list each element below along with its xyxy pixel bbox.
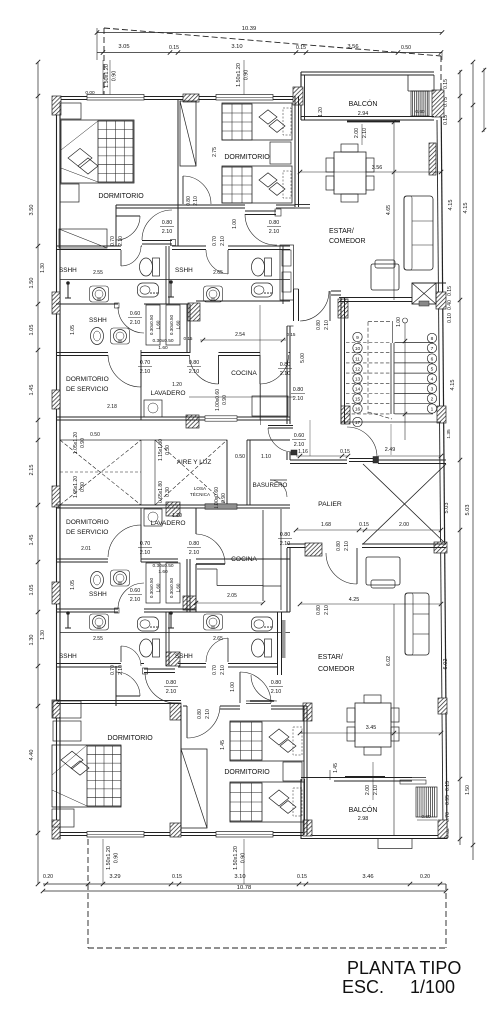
svg-text:1.10: 1.10 [261,454,271,460]
svg-text:1.45: 1.45 [220,740,226,750]
svg-text:1.20: 1.20 [318,107,324,117]
svg-text:DORMITORIO: DORMITORIO [66,376,109,383]
svg-text:0.65x1.80: 0.65x1.80 [158,481,164,503]
svg-text:0.30: 0.30 [165,487,171,497]
svg-text:0.90: 0.90 [114,853,120,864]
svg-text:2: 2 [431,396,434,402]
svg-text:1.35: 1.35 [446,429,452,439]
svg-text:5.03: 5.03 [465,505,471,516]
svg-text:4.40: 4.40 [29,750,35,761]
svg-text:ESTAR/: ESTAR/ [318,654,343,661]
svg-text:0.30x0.50: 0.30x0.50 [152,563,173,569]
svg-text:SSHH: SSHH [89,317,107,324]
svg-text:DORMITORIO: DORMITORIO [98,193,144,200]
svg-text:2.10: 2.10 [373,785,379,795]
svg-text:1.05: 1.05 [70,325,76,335]
svg-text:TÉCNICA: TÉCNICA [190,491,211,497]
svg-text:0.80: 0.80 [162,220,173,226]
svg-text:0.90: 0.90 [112,71,118,82]
svg-text:SSHH: SSHH [59,267,77,274]
svg-text:0.80: 0.80 [271,680,282,686]
svg-text:1.50x1.20: 1.50x1.20 [233,846,239,870]
svg-text:1.45: 1.45 [29,535,35,546]
svg-text:7: 7 [431,346,434,352]
svg-text:0.15: 0.15 [443,79,449,89]
svg-text:1.16: 1.16 [298,449,308,455]
svg-text:13: 13 [355,376,361,382]
svg-text:2.10: 2.10 [324,320,330,330]
svg-text:0.15: 0.15 [184,336,193,341]
svg-text:2.05: 2.05 [227,593,237,599]
svg-text:0.90: 0.90 [241,853,247,864]
svg-text:0.90: 0.90 [244,70,250,81]
svg-text:DORMITORIO: DORMITORIO [224,154,270,161]
svg-text:3.29: 3.29 [109,874,120,880]
svg-text:0.60: 0.60 [130,311,141,317]
svg-text:1.20: 1.20 [172,513,182,519]
svg-text:4.15: 4.15 [450,380,456,391]
svg-text:1.30: 1.30 [29,635,35,646]
svg-text:0.80: 0.80 [336,541,342,551]
svg-text:3.56: 3.56 [372,165,383,171]
svg-text:SSHH: SSHH [175,653,193,660]
svg-text:1.45: 1.45 [333,763,339,773]
svg-text:0.15: 0.15 [445,781,451,791]
svg-text:2.55: 2.55 [93,636,103,642]
svg-text:0.60: 0.60 [421,814,431,820]
svg-text:3.56: 3.56 [347,44,358,50]
svg-text:2.00: 2.00 [354,128,360,138]
svg-text:1/100: 1/100 [410,977,455,997]
svg-text:0.30: 0.30 [165,445,171,455]
svg-text:0.70: 0.70 [110,665,116,675]
svg-text:6: 6 [431,356,434,362]
svg-text:2.01: 2.01 [81,546,91,552]
svg-text:5.00: 5.00 [300,353,306,363]
svg-text:1.00x0.60: 1.00x0.60 [214,487,220,509]
svg-text:0.90: 0.90 [80,482,86,492]
svg-text:0.60: 0.60 [130,588,141,594]
svg-text:SSHH: SSHH [175,267,193,274]
svg-text:0.80: 0.80 [189,541,200,547]
svg-text:9: 9 [356,335,359,341]
svg-text:0.60: 0.60 [415,109,425,115]
svg-text:0.40: 0.40 [447,300,453,310]
svg-text:1.60: 1.60 [176,320,181,329]
svg-text:11: 11 [355,356,360,362]
svg-text:1.05x1.20: 1.05x1.20 [73,476,79,498]
svg-text:1.00x0.60: 1.00x0.60 [215,389,221,411]
svg-text:4.25: 4.25 [349,597,360,603]
svg-text:0.70: 0.70 [212,236,218,246]
svg-text:1.60: 1.60 [176,583,181,592]
svg-text:ESTAR/: ESTAR/ [329,228,354,235]
svg-text:1.00: 1.00 [230,682,236,692]
svg-text:1.60: 1.60 [156,583,161,592]
svg-text:0.30x0.50: 0.30x0.50 [152,338,173,344]
svg-text:1.60: 1.60 [158,569,168,575]
svg-text:0.80: 0.80 [166,680,177,686]
svg-text:0.15: 0.15 [296,45,306,51]
svg-text:0.50: 0.50 [235,454,245,460]
svg-text:ESC.: ESC. [342,977,384,997]
svg-text:PLANTA TIPO: PLANTA TIPO [347,958,461,978]
svg-text:0.90: 0.90 [221,493,227,503]
svg-text:2.10: 2.10 [269,229,280,235]
svg-text:1.60: 1.60 [156,320,161,329]
svg-text:0.10: 0.10 [447,313,453,323]
svg-text:COCINA: COCINA [231,370,257,377]
svg-text:4.65: 4.65 [386,205,392,215]
svg-text:1.05x1.20: 1.05x1.20 [73,432,79,454]
svg-text:2.10: 2.10 [293,396,304,402]
svg-text:1.00: 1.00 [232,219,238,229]
svg-text:BALCÓN: BALCÓN [349,805,378,814]
svg-text:2.55: 2.55 [93,270,103,276]
svg-text:4.15: 4.15 [463,203,469,214]
svg-text:2.10: 2.10 [130,320,141,326]
svg-text:17: 17 [355,420,361,426]
svg-text:0.80: 0.80 [269,220,280,226]
svg-text:2.10: 2.10 [280,541,291,547]
svg-text:2.00: 2.00 [365,785,371,795]
svg-text:1.50x1.20: 1.50x1.20 [104,64,110,88]
svg-text:1.05: 1.05 [29,325,35,336]
svg-text:2.49: 2.49 [385,447,396,453]
svg-text:2.10: 2.10 [166,689,177,695]
svg-text:2.10: 2.10 [189,550,200,556]
svg-text:14: 14 [355,386,361,392]
svg-text:COMEDOR: COMEDOR [329,238,366,245]
svg-text:2.10: 2.10 [220,236,226,246]
svg-text:10: 10 [355,346,361,352]
svg-text:1.50: 1.50 [29,278,35,289]
svg-text:3.50: 3.50 [29,205,35,216]
svg-text:3.05: 3.05 [118,44,129,50]
svg-text:16: 16 [355,406,361,412]
svg-text:1.15x1.80: 1.15x1.80 [158,439,164,461]
svg-text:10.78: 10.78 [237,885,252,891]
svg-text:1.68: 1.68 [321,522,331,528]
svg-text:10.39: 10.39 [242,26,257,32]
svg-text:2.10: 2.10 [118,665,124,675]
svg-text:2.54: 2.54 [235,332,245,338]
svg-text:0.90: 0.90 [80,438,86,448]
svg-text:0.20: 0.20 [420,874,430,880]
svg-text:6.02: 6.02 [386,656,392,666]
svg-text:0.15: 0.15 [287,332,296,337]
svg-text:0.80: 0.80 [280,532,291,538]
svg-text:0.80: 0.80 [316,605,322,615]
svg-text:DORMITORIO: DORMITORIO [107,735,153,742]
svg-text:1.30: 1.30 [40,630,46,640]
svg-text:2.10: 2.10 [162,229,173,235]
svg-text:1.30: 1.30 [40,263,46,273]
svg-text:2.10: 2.10 [118,236,124,246]
svg-text:2.10: 2.10 [220,665,226,675]
svg-text:3: 3 [431,386,434,392]
svg-text:2.10: 2.10 [362,128,368,138]
svg-text:0.90: 0.90 [222,395,228,405]
svg-text:0.80: 0.80 [186,196,192,206]
svg-text:0.30x0.50: 0.30x0.50 [149,577,154,598]
svg-text:0.30x0.50: 0.30x0.50 [169,577,174,598]
svg-text:2.75: 2.75 [212,147,218,157]
svg-text:0.80: 0.80 [293,387,304,393]
svg-text:5: 5 [431,366,434,372]
svg-text:0.80: 0.80 [197,709,203,719]
svg-text:0.80: 0.80 [280,362,291,368]
svg-text:2.15: 2.15 [29,465,35,476]
svg-text:SSHH: SSHH [59,653,77,660]
svg-text:BALCÓN: BALCÓN [349,99,378,108]
svg-text:0.15: 0.15 [172,874,182,880]
svg-text:2.10: 2.10 [344,541,350,551]
svg-text:2.18: 2.18 [107,404,117,410]
svg-text:SSHH: SSHH [89,591,107,598]
svg-text:2.10: 2.10 [271,689,282,695]
svg-text:0.95: 0.95 [445,795,451,805]
svg-text:2.10: 2.10 [189,369,200,375]
svg-text:2.10: 2.10 [193,196,199,206]
svg-text:1.60: 1.60 [158,345,168,351]
svg-text:1.50x1.20: 1.50x1.20 [236,63,242,87]
svg-text:DE SERVICIO: DE SERVICIO [66,529,108,536]
svg-text:0.15: 0.15 [359,522,369,528]
svg-text:COCINA: COCINA [231,556,257,563]
svg-text:0.70: 0.70 [110,236,116,246]
svg-text:0.30x0.50: 0.30x0.50 [169,314,174,335]
svg-text:COMEDOR: COMEDOR [318,666,355,673]
svg-text:DORMITORIO: DORMITORIO [66,519,109,526]
svg-text:1.05: 1.05 [29,585,35,596]
svg-text:2.98: 2.98 [358,816,369,822]
svg-text:1.05: 1.05 [70,580,76,590]
svg-text:2.10: 2.10 [205,709,211,719]
svg-text:1.50x1.20: 1.50x1.20 [106,846,112,870]
svg-text:8: 8 [431,336,434,342]
svg-text:3.46: 3.46 [362,874,373,880]
svg-text:0.80: 0.80 [316,320,322,330]
svg-text:DE SERVICIO: DE SERVICIO [66,386,108,393]
svg-text:4: 4 [431,376,434,382]
svg-text:0.70: 0.70 [212,665,218,675]
svg-text:DORMITORIO: DORMITORIO [224,769,270,776]
svg-text:0.15: 0.15 [340,449,350,455]
svg-text:1.50: 1.50 [465,785,471,795]
svg-text:LAVADERO: LAVADERO [151,390,186,397]
svg-text:12: 12 [355,366,361,372]
svg-text:0.15: 0.15 [169,45,179,51]
svg-text:1: 1 [431,406,434,412]
svg-text:2.10: 2.10 [130,597,141,603]
svg-text:4.15: 4.15 [448,200,454,211]
svg-text:2.10: 2.10 [294,442,305,448]
svg-text:0.60: 0.60 [294,433,305,439]
svg-text:2.00: 2.00 [399,522,409,528]
svg-text:PALIER: PALIER [318,501,342,508]
svg-text:0.30x0.50: 0.30x0.50 [149,314,154,335]
svg-text:3.45: 3.45 [366,725,377,731]
svg-text:0.50: 0.50 [90,432,100,438]
svg-text:0.15: 0.15 [447,286,453,296]
svg-text:1.45: 1.45 [29,385,35,396]
svg-text:AIRE Y LUZ: AIRE Y LUZ [177,459,212,466]
svg-text:0.50: 0.50 [401,45,411,51]
svg-text:LOSA: LOSA [194,486,207,491]
svg-text:15: 15 [355,396,361,402]
svg-text:0.15: 0.15 [297,874,307,880]
svg-text:1.00: 1.00 [396,317,402,327]
svg-text:0.20: 0.20 [43,874,53,880]
svg-text:1.20: 1.20 [172,382,182,388]
svg-text:2.10: 2.10 [324,605,330,615]
svg-text:3.10: 3.10 [231,44,242,50]
